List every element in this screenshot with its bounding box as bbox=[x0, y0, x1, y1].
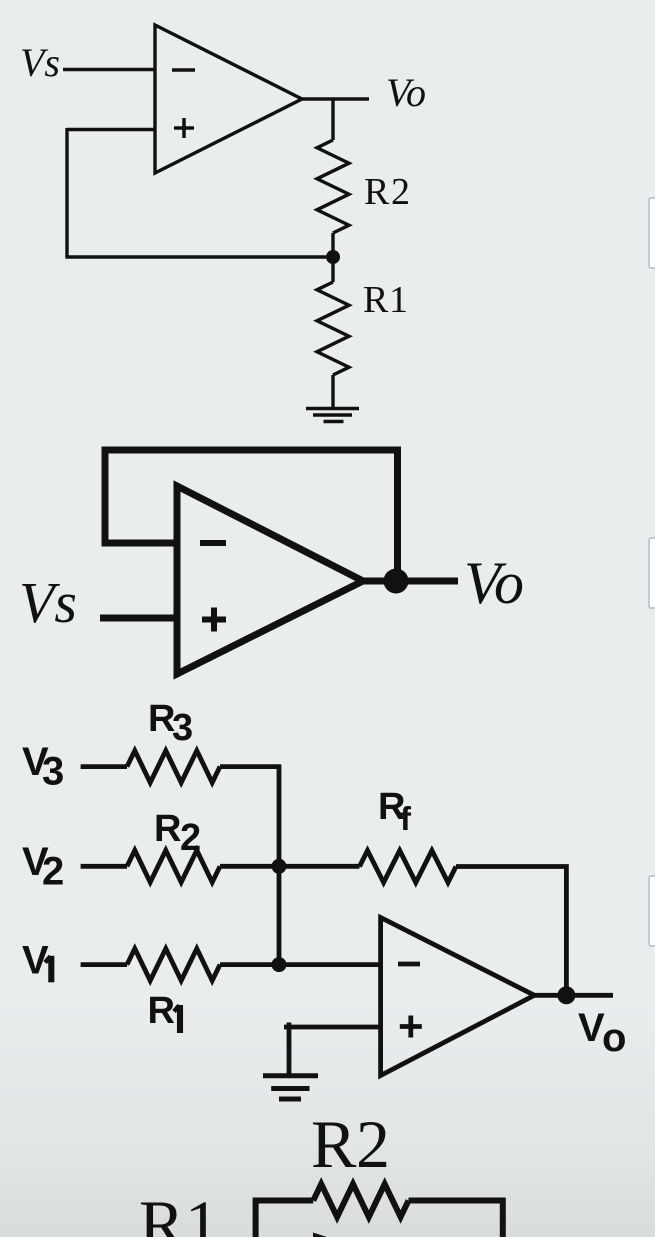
value label R1 (circuit 3) bbox=[148, 990, 175, 1032]
resistor R2 bbox=[317, 140, 349, 233]
wire R1 to ground bbox=[331, 375, 334, 408]
svg-text:R3: R3 bbox=[148, 698, 193, 749]
value label R2 (circuit 3) bbox=[154, 808, 201, 859]
wire feedback left vertical bbox=[65, 128, 68, 257]
svg-text:Rf: Rf bbox=[378, 786, 412, 837]
svg-text:Vo: Vo bbox=[386, 70, 426, 115]
wire Rf to output node E bbox=[456, 867, 566, 996]
value label Rf bbox=[378, 786, 412, 837]
node Vs (circuit 2 input label) bbox=[19, 570, 77, 635]
wire V2 to R2 bbox=[81, 864, 127, 869]
node C junction dot bbox=[272, 859, 287, 874]
node B output junction dot bbox=[384, 569, 409, 594]
value label R1 bbox=[363, 279, 408, 321]
svg-text:V3: V3 bbox=[22, 740, 64, 794]
wire U1 output to Vo bbox=[302, 97, 369, 100]
svg-text:Vo: Vo bbox=[464, 550, 524, 616]
resistor R1 bbox=[317, 282, 349, 375]
node A junction dot bbox=[326, 250, 340, 264]
answer box 1 (right edge) bbox=[648, 197, 655, 269]
wire feedback right vertical (circuit 4) bbox=[409, 1201, 503, 1237]
wire V1 to R1 bbox=[81, 962, 127, 967]
svg-text:Vo: Vo bbox=[578, 1006, 626, 1060]
node Vo (circuit 3 output label) bbox=[578, 1006, 626, 1060]
U1 inverting pin minus sign bbox=[172, 68, 195, 72]
node D junction dot bbox=[272, 957, 287, 972]
svg-text:R2: R2 bbox=[154, 808, 201, 859]
U1 non-inverting pin plus sign bbox=[174, 118, 194, 138]
node Vs (circuit 1 input label) bbox=[20, 40, 60, 85]
resistor R2 (circuit 4) bbox=[313, 1184, 408, 1217]
wire node A to R1 bbox=[331, 257, 334, 282]
wire feedback bottom to node A bbox=[65, 255, 333, 258]
op-amp U3 bbox=[381, 918, 535, 1076]
node Vo (circuit 1 output label) bbox=[386, 70, 426, 115]
node V3 (circuit 3 input label) bbox=[22, 740, 64, 794]
node V1 (circuit 3 input label) bbox=[22, 939, 49, 983]
value label R2 (circuit 4) bbox=[311, 1106, 390, 1182]
svg-text:R: R bbox=[148, 990, 175, 1032]
value label R2 bbox=[364, 171, 410, 213]
svg-text:V2: V2 bbox=[22, 840, 64, 894]
value label R1 (circuit 4, clipped) bbox=[139, 1186, 219, 1237]
node Vo (circuit 2 output label) bbox=[464, 550, 524, 616]
value label R3 bbox=[148, 698, 193, 749]
answer box 3 (right edge) bbox=[648, 875, 655, 947]
wire V3 to R3 bbox=[81, 764, 127, 769]
wire U2 output to Vo bbox=[363, 578, 458, 585]
wire feedback loop output to U2 inverting input bbox=[105, 450, 398, 581]
node V1 subscript digit bbox=[45, 956, 51, 983]
ground (circuit 1) bbox=[306, 409, 359, 422]
svg-text:R1: R1 bbox=[363, 279, 408, 321]
wire feedback left vertical (circuit 4) bbox=[256, 1201, 314, 1237]
wire U1 non-inverting input feedback horizontal bbox=[67, 128, 155, 131]
op-amp U1 bbox=[155, 25, 302, 173]
svg-text:Vs: Vs bbox=[20, 40, 60, 85]
wire R2 to node C bbox=[220, 864, 279, 869]
wire ground to U3 non-inverting input bbox=[284, 1025, 381, 1030]
wire Vs to U2 non-inverting input bbox=[100, 615, 177, 622]
wire node D to U3 inverting input bbox=[279, 962, 381, 967]
U2 inverting pin minus sign bbox=[200, 540, 226, 546]
wire R1 to node D bbox=[220, 962, 279, 967]
U3 inverting pin minus sign bbox=[398, 962, 420, 967]
wire ground stub vertical bbox=[287, 1023, 292, 1076]
node E output junction dot bbox=[557, 986, 575, 1004]
ground (circuit 3) bbox=[263, 1076, 318, 1099]
wire output branch down to R2 bbox=[331, 97, 334, 140]
svg-text:Vs: Vs bbox=[19, 570, 77, 635]
wire R2 to node A bbox=[331, 233, 334, 257]
svg-text:R1: R1 bbox=[139, 1186, 219, 1237]
wire Vs to U1 inverting input bbox=[63, 68, 155, 71]
U3 non-inverting pin plus sign bbox=[400, 1016, 422, 1038]
U2 non-inverting pin plus sign bbox=[202, 608, 226, 632]
wire R3 to summing vertical bbox=[220, 764, 279, 769]
resistor R2 (circuit 3) bbox=[127, 850, 220, 882]
svg-text:R2: R2 bbox=[364, 171, 410, 213]
wire node C to Rf bbox=[279, 864, 360, 869]
resistor R1 (circuit 3) bbox=[127, 949, 220, 981]
wire summing vertical V3 to node D bbox=[277, 764, 282, 964]
resistor R3 bbox=[127, 751, 220, 783]
wire U3 output to Vo bbox=[534, 993, 613, 998]
resistor Rf bbox=[360, 851, 457, 883]
answer box 2 (right edge) bbox=[648, 537, 655, 609]
op-amp U4 top corner (clipped) bbox=[313, 1233, 327, 1237]
node V2 (circuit 3 input label) bbox=[22, 840, 64, 894]
value label R1 subscript digit bbox=[174, 1005, 180, 1033]
op-amp U2 bbox=[177, 486, 363, 674]
svg-text:R2: R2 bbox=[311, 1106, 390, 1182]
